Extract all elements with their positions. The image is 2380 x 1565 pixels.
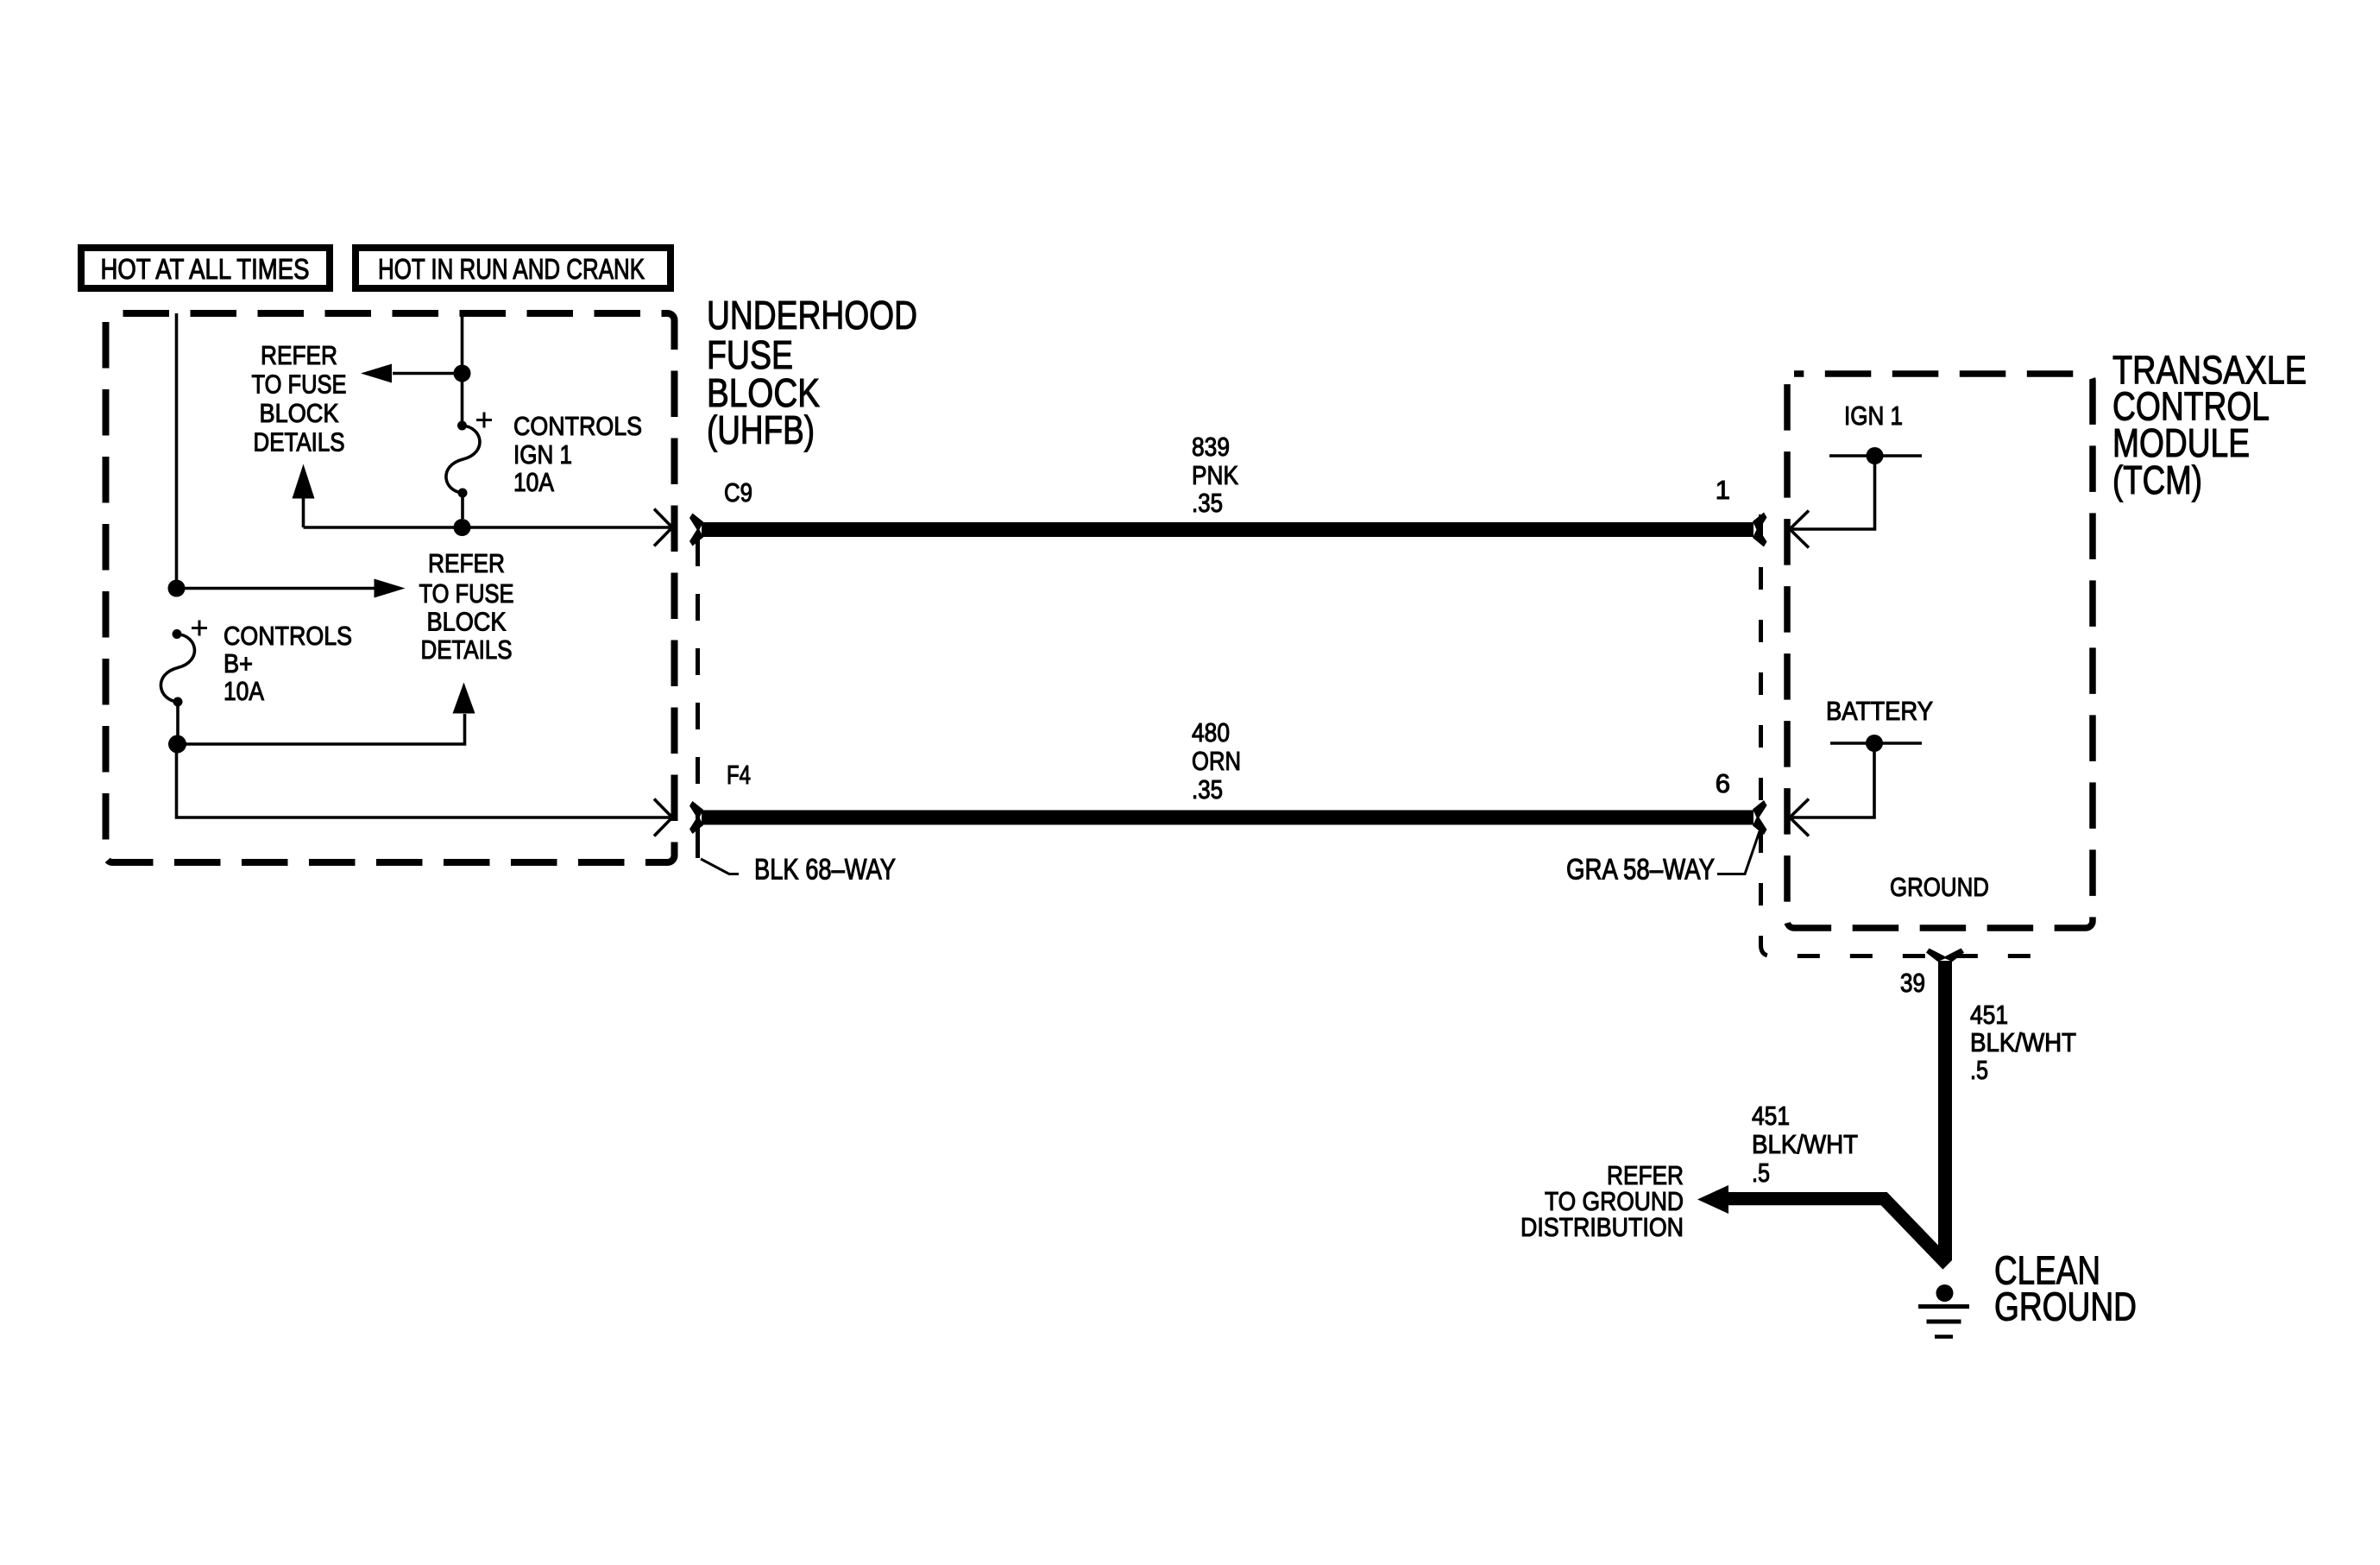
terminal fishtail at C9 end [689, 514, 703, 546]
wire: B+ feed vertical (hot at all times) [175, 313, 179, 589]
open arrow: into UHFB at F4 [654, 799, 672, 836]
svg-text:.5: .5 [1752, 1158, 1770, 1188]
svg-text:6: 6 [1716, 768, 1730, 798]
svg-text:10A: 10A [224, 676, 264, 706]
wire: B+ feed down and right to F4 [177, 744, 671, 817]
svg-text:IGN 1: IGN 1 [1844, 401, 1903, 431]
arrowhead: to fuse block details (pointing left) [361, 364, 392, 383]
transaxle control module (TCM) dashed outline [1787, 374, 2093, 928]
svg-text:839: 839 [1192, 432, 1230, 462]
svg-text:TO FUSE: TO FUSE [419, 578, 514, 609]
open arrow: at pin 6 [1790, 799, 1809, 836]
terminal fishtail at F4 end [689, 801, 703, 834]
svg-text:DETAILS: DETAILS [421, 634, 513, 665]
connector line: BLK 68-WAY (thin dashed) [696, 540, 700, 833]
wire: BATTERY terminal to pin 6 [1792, 743, 1874, 817]
svg-text:REFER: REFER [261, 340, 337, 370]
svg-text:CONTROLS: CONTROLS [224, 621, 352, 651]
arrowhead: to ground distribution (pointing left) [1697, 1185, 1728, 1214]
pointer line to BLK 68-WAY label [701, 859, 739, 874]
wire: IGN 1 feed vertical (hot in run and crank) [461, 313, 464, 426]
terminal: IGN 1 bus bar [1829, 454, 1922, 458]
value label: 451 BLK/WHT .5 (right) [1970, 1000, 2076, 1085]
open arrow: at pin 1 [1790, 511, 1809, 548]
svg-text:HOT IN RUN AND CRANK: HOT IN RUN AND CRANK [378, 253, 645, 285]
svg-text:IGN 1: IGN 1 [513, 439, 572, 470]
wire: IGN 1 feed horizontal to C9 with up arrow stub [304, 526, 671, 529]
svg-text:CONTROLS: CONTROLS [513, 411, 642, 441]
svg-text:B+: B+ [224, 648, 253, 678]
svg-text:(TCM): (TCM) [2112, 458, 2202, 502]
svg-text:REFER: REFER [428, 548, 505, 578]
terminal fishtail at pin 6 end [1753, 800, 1767, 835]
terminal: BATTERY bus bar [1830, 741, 1922, 745]
svg-text:F4: F4 [727, 760, 751, 790]
connector line: GRA 58-WAY (thin dashed) [1761, 514, 2033, 956]
svg-text:.5: .5 [1970, 1055, 1988, 1085]
svg-text:GROUND: GROUND [1890, 872, 1989, 902]
arrowhead: up to fuse block details [453, 683, 475, 714]
underhood fuse block (UHFB) dashed outline [106, 313, 675, 862]
pointer line to GRA 58-WAY label [1717, 831, 1760, 874]
UHFB title text [707, 293, 917, 452]
terminal fishtail at pin 1 end [1753, 513, 1767, 547]
svg-text:10A: 10A [513, 467, 554, 497]
svg-text:C9: C9 [724, 477, 752, 508]
svg-text:BLOCK: BLOCK [427, 607, 507, 637]
wire: circuit 839 PNK .35 (C9 to TCM pin 1) [702, 522, 1754, 537]
svg-text:BLK/WHT: BLK/WHT [1970, 1027, 2076, 1057]
text: REFER TO FUSE BLOCK DETAILS (upper block) [252, 340, 347, 458]
svg-text:DISTRIBUTION: DISTRIBUTION [1521, 1212, 1684, 1242]
svg-text:GRA 58–WAY: GRA 58–WAY [1566, 854, 1715, 887]
arrowhead: to fuse block details (pointing right) [375, 579, 406, 598]
svg-text:ORN: ORN [1192, 746, 1241, 776]
node: junction below B+ fuse [168, 735, 186, 754]
wire: circuit 451 BLK/WHT .5 (pin 39 ground drop, with ground distribution elbow) [1726, 961, 1952, 1270]
fuse: CONTROLS B+ 10A [161, 621, 207, 707]
terminal fishtail at pin 39 [1926, 949, 1964, 962]
svg-text:PNK: PNK [1192, 460, 1238, 490]
svg-text:UNDERHOOD: UNDERHOOD [707, 293, 917, 338]
node: junction on B+ feed (refer arrow) [168, 580, 186, 597]
wire: fuse output down to junction [461, 497, 464, 519]
ground symbol: CLEAN GROUND [1918, 1284, 1969, 1337]
svg-text:39: 39 [1900, 968, 1925, 998]
label box: HOT IN RUN AND CRANK [356, 248, 671, 288]
TCM title text [2112, 348, 2307, 503]
text: CLEAN GROUND [1994, 1248, 2137, 1329]
node: junction below IGN 1 fuse [454, 519, 471, 536]
svg-text:451: 451 [1752, 1101, 1790, 1131]
wire: fuse output to lower junction [176, 706, 179, 735]
value label: 839 PNK .35 [1192, 432, 1238, 518]
svg-text:480: 480 [1192, 717, 1230, 748]
label box: HOT AT ALL TIMES [81, 248, 330, 288]
value label: 451 BLK/WHT .5 (left) [1752, 1101, 1858, 1188]
svg-text:.35: .35 [1192, 774, 1223, 805]
wire: circuit 480 ORN .35 (F4 to TCM pin 6) [702, 811, 1754, 825]
value label: CONTROLS IGN 1 10A [513, 411, 642, 497]
svg-text:.35: .35 [1192, 488, 1223, 518]
arrowhead: up to fuse block details (upper) [293, 464, 315, 499]
wire: branch right to up arrow [178, 714, 465, 744]
wire: arrow branch to fuse block details (left) [393, 372, 463, 375]
value label: CONTROLS B+ 10A [224, 621, 352, 706]
svg-text:451: 451 [1970, 1000, 2008, 1030]
node: IGN 1 terminal dot [1867, 447, 1884, 464]
fuse: CONTROLS IGN 1 10A [446, 413, 492, 498]
svg-text:DETAILS: DETAILS [254, 427, 345, 458]
svg-text:1: 1 [1716, 475, 1730, 505]
svg-text:BLK 68–WAY: BLK 68–WAY [754, 854, 896, 887]
node: BATTERY terminal dot [1866, 735, 1883, 752]
wire: IGN 1 terminal to pin 1 [1792, 456, 1875, 529]
value label: 480 ORN .35 [1192, 717, 1241, 805]
svg-text:TO FUSE: TO FUSE [252, 369, 347, 400]
wire: arrow branch to fuse block details (right) [177, 587, 375, 590]
svg-text:BLK/WHT: BLK/WHT [1752, 1129, 1858, 1159]
svg-text:HOT AT ALL TIMES: HOT AT ALL TIMES [101, 253, 310, 285]
text: REFER TO FUSE BLOCK DETAILS (lower block) [419, 548, 514, 665]
svg-text:BATTERY: BATTERY [1826, 696, 1933, 726]
text: REFER TO GROUND DISTRIBUTION [1521, 1160, 1684, 1242]
open arrow: into UHFB at C9 [654, 509, 672, 546]
svg-text:GROUND: GROUND [1994, 1284, 2137, 1329]
node: junction on IGN 1 feed (refer arrow) [454, 365, 471, 382]
svg-text:(UHFB): (UHFB) [707, 407, 815, 452]
svg-text:BLOCK: BLOCK [260, 398, 339, 428]
